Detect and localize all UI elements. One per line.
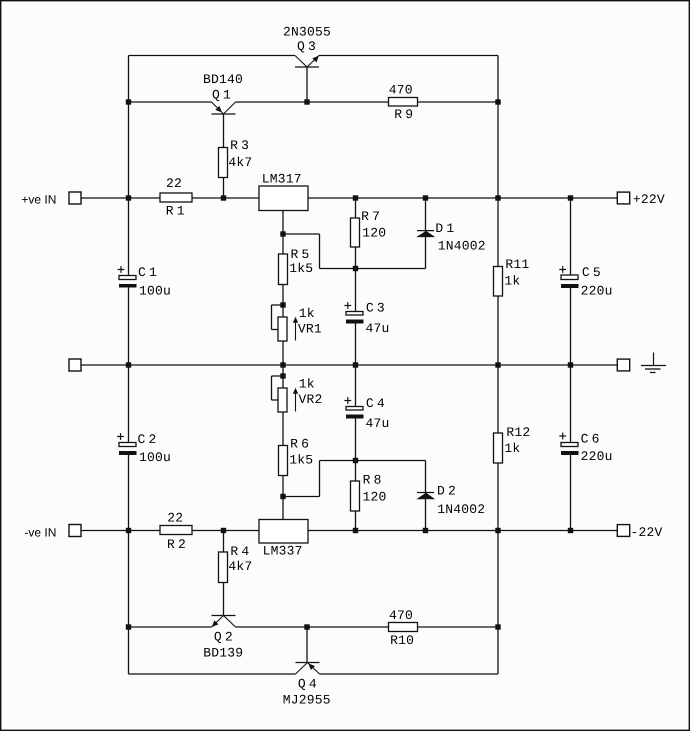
svg-text:47u: 47u [365,321,389,336]
svg-text:C5: C5 [582,265,604,280]
svg-text:VR2: VR2 [298,392,322,407]
svg-text:R1: R1 [166,203,188,218]
svg-text:1k: 1k [504,274,520,289]
svg-text:+22V: +22V [633,192,665,207]
svg-text:R5: R5 [290,247,312,262]
svg-text:22: 22 [167,510,183,525]
svg-text:1N4002: 1N4002 [437,502,485,517]
svg-text:LM317: LM317 [262,171,302,186]
svg-text:1N4002: 1N4002 [438,238,486,253]
svg-text:C4: C4 [366,396,388,411]
svg-text:47u: 47u [365,416,389,431]
svg-text:BD139: BD139 [203,645,243,660]
svg-text:LM337: LM337 [263,543,303,558]
svg-text:4k7: 4k7 [228,559,252,574]
svg-text:R6: R6 [290,437,312,452]
svg-text:1k: 1k [299,376,315,391]
svg-text:-ve IN: -ve IN [24,526,56,540]
svg-text:120: 120 [362,489,386,504]
svg-text:R4: R4 [230,544,252,559]
svg-text:470: 470 [389,83,413,98]
svg-text:C6: C6 [581,432,603,447]
svg-text:Q2: Q2 [214,629,236,644]
svg-text:220u: 220u [581,449,613,464]
svg-text:R10: R10 [390,633,414,648]
svg-text:1k5: 1k5 [289,261,313,276]
svg-text:R12: R12 [506,425,530,440]
svg-text:D2: D2 [437,484,459,499]
svg-text:R3: R3 [230,138,252,153]
svg-text:R8: R8 [363,473,385,488]
svg-text:R7: R7 [361,209,383,224]
svg-text:1k: 1k [299,306,315,321]
svg-text:2N3055: 2N3055 [283,24,331,39]
svg-text:Q4: Q4 [298,676,320,691]
svg-text:R11: R11 [505,257,529,272]
svg-text:470: 470 [389,608,413,623]
svg-text:BD140: BD140 [203,72,243,87]
svg-text:4k7: 4k7 [228,155,252,170]
svg-text:22: 22 [166,176,182,191]
svg-text:VR1: VR1 [298,322,322,337]
svg-text:R2: R2 [167,537,189,552]
svg-text:C3: C3 [366,301,388,316]
svg-text:C1: C1 [138,265,160,280]
svg-text:C2: C2 [137,432,159,447]
svg-text:Q3: Q3 [297,39,319,54]
svg-text:100u: 100u [139,284,171,299]
svg-text:MJ2955: MJ2955 [283,693,331,708]
svg-text:1k5: 1k5 [289,452,313,467]
svg-text:-22V: -22V [630,525,662,540]
svg-text:+ve IN: +ve IN [21,192,56,206]
svg-text:1k: 1k [504,441,520,456]
svg-text:Q1: Q1 [212,87,234,102]
svg-text:220u: 220u [581,284,613,299]
svg-text:100u: 100u [139,450,171,465]
svg-text:D1: D1 [435,221,457,236]
svg-text:120: 120 [362,226,386,241]
svg-text:R9: R9 [394,107,416,122]
